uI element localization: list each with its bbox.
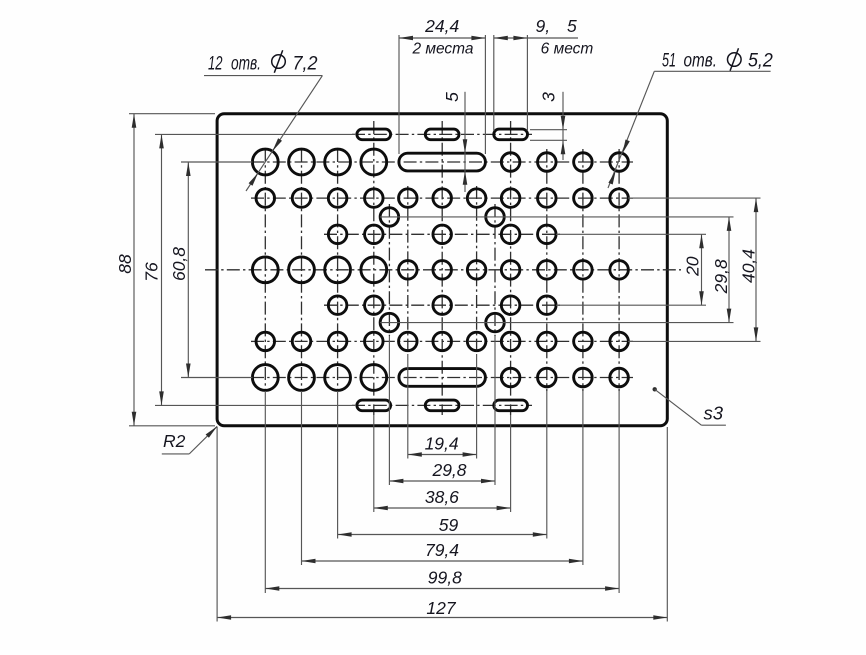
dimension 60.8 line [186,162,191,378]
label 127 [426,598,456,618]
label 76 [142,262,162,282]
row 6 big holes d7.2 [252,365,386,391]
center row big holes d7.2 [252,257,386,283]
label 19.4 [425,434,459,454]
svg-text:29,8: 29,8 [431,460,466,480]
row 2 small holes [256,189,628,208]
svg-text:12: 12 [208,53,223,75]
svg-text:59: 59 [439,515,459,535]
dimension 29.8 ext lines [380,217,734,323]
row 1 big holes d7.2 [252,149,386,175]
dimension 5 lines [463,92,468,192]
dimension 76 ext lines [155,134,356,405]
horizontal hole row centerlines [205,134,681,405]
label R2 [163,431,186,451]
dimension 3 ext lines [530,130,567,141]
label s3 [704,403,724,424]
svg-text:20: 20 [683,256,703,277]
center row small holes [399,261,629,280]
dimension 127 line [217,615,667,620]
leader 51 holes d5.2 [608,71,771,188]
svg-text:отв.: отв. [231,53,261,75]
svg-text:5: 5 [567,16,577,36]
svg-text:24,4: 24,4 [424,16,459,36]
row 6 small holes [501,368,628,387]
label 3 [539,92,559,102]
svg-text:38,6: 38,6 [425,487,459,507]
dimension 19.4 line [408,452,477,457]
dimension 29.8 bottom line [389,479,495,484]
dimension 76 line [159,134,164,405]
long slot 24.4x5 top [399,153,486,171]
dimension 40.4 line [754,198,759,341]
svg-text:127: 127 [426,598,456,618]
label 29.8 right [711,259,731,294]
svg-text:отв.: отв. [684,50,718,72]
dimension 20 ext lines [556,234,706,305]
svg-text:29,8: 29,8 [711,259,731,294]
label 51 otv d5.2 [662,48,773,71]
dimension 88 line [132,114,137,426]
label 88 [115,254,135,274]
label 40.4 [739,249,759,283]
dimension 60.8 ext lines [181,162,253,378]
svg-text:88: 88 [115,254,135,274]
svg-text:2 места: 2 места [411,41,473,58]
dimension 99.8 line [265,586,619,591]
row 5 small holes [256,332,628,351]
leader s3 [653,387,726,425]
svg-text:79,4: 79,4 [425,540,459,560]
vertical hole column centerlines [265,121,619,415]
dimension 9.5 extension lines [494,35,528,131]
row 3 small holes [328,225,556,244]
long slot 24.4x5 bottom [399,369,486,387]
leader 12 holes d7.2 [204,76,322,191]
dimension 38.6 line [374,506,511,511]
svg-text:s3: s3 [704,403,724,424]
upper staggered small holes [380,208,504,227]
plate outline 127x88 rounded R2 [217,114,667,426]
label 29.8 bottom [431,460,466,480]
label 9.5 [536,16,578,36]
svg-text:19,4: 19,4 [425,434,459,454]
label 60.8 [169,247,189,281]
label 6 mest [541,41,594,58]
label 99.8 [428,568,462,588]
dimension 79.4 line [302,559,583,564]
label 24.4 [424,16,459,36]
bottom slotted holes 9.5x3 row [357,400,528,411]
label 5 [442,92,462,102]
dimension 24.4 line [399,36,485,41]
dimension 20 line [699,234,704,305]
dimension 24.4 extension lines [399,35,485,154]
dimension 59 line [338,532,547,537]
svg-text:9,: 9, [536,16,551,36]
leader R2 [162,426,217,454]
label 59 [439,515,459,535]
top slotted holes 9.5x3 row [357,129,528,140]
svg-text:6 мест: 6 мест [541,41,594,58]
label 2 mesta [411,41,473,58]
row 4 small holes [328,296,556,315]
svg-text:40,4: 40,4 [739,249,759,283]
label 20 [683,256,703,277]
svg-text:3: 3 [539,92,559,102]
label 38.6 [425,487,459,507]
svg-text:7,2: 7,2 [293,53,318,75]
svg-text:99,8: 99,8 [428,568,462,588]
dimension 9.5 line [494,36,578,41]
svg-text:51: 51 [662,50,676,72]
svg-text:R2: R2 [163,431,186,451]
lower staggered small holes [380,313,504,332]
svg-text:5,2: 5,2 [748,50,773,72]
row 1 small holes d5.2 [501,153,628,172]
dimension 88 ext lines [129,114,215,426]
svg-text:5: 5 [442,92,462,102]
label 12 otv d7.2 [208,50,318,74]
bottom extension lines [217,336,667,622]
label 79.4 [425,540,459,560]
dimension 29.8 line [727,217,732,323]
svg-text:60,8: 60,8 [169,247,189,281]
dimension 40.4 ext lines [628,198,761,341]
svg-text:76: 76 [142,262,162,282]
dimension 3 lines [561,92,566,160]
